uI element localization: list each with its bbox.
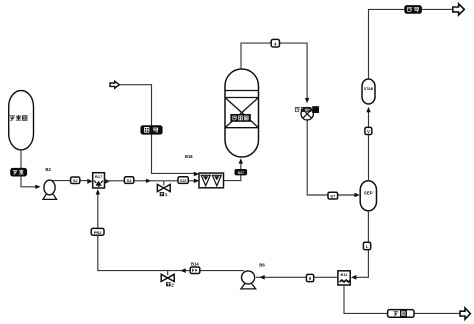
svg-text:B6: B6 [259,263,265,268]
arrowhead into pump B2 [35,185,40,189]
wire SEP top to STAB [368,112,370,181]
stream label 4 [271,39,279,47]
reactor column 反应器 [225,69,259,157]
wire B18 to reactor bottom [224,162,241,181]
wire B11 to pump B6 [256,276,338,278]
wire SEP bottom to splitter B11 [354,211,368,277]
svg-text:S16: S16 [180,179,187,183]
svg-text:B11: B11 [341,272,349,277]
stream label 6 [306,274,313,281]
stream label 尾气 (black) [405,6,422,14]
arrowhead into B17 bottom [96,189,100,194]
svg-text:B2: B2 [45,167,51,172]
wire B11 to product outlet [344,285,460,313]
outlet arrow symbol bottom right [460,308,470,319]
arrowhead into STAB [366,107,370,112]
wire hydrogen feed to B18 [119,85,196,174]
svg-text:S7: S7 [330,194,336,199]
label 进料罐 [10,115,27,120]
block B14 [190,267,200,274]
svg-text:S4: S4 [127,178,133,183]
stream label V [365,127,372,134]
wire STAB top to offgas outlet [369,9,454,79]
arrowhead into SEP [354,193,359,198]
arrowhead into B11 [351,275,356,280]
svg-text:V: V [367,129,370,134]
svg-text:1: 1 [165,192,168,197]
svg-text:PR2: PR2 [94,230,103,235]
valve 阀1 [163,181,165,186]
flash drum SEP [360,181,376,211]
wire pump B2 to mixer B17 [53,180,91,182]
svg-text:S2: S2 [73,178,79,183]
svg-text:B14: B14 [191,262,199,267]
outlet arrowhead of B17 [105,179,110,184]
wire feed tank to pump B2 [21,150,37,187]
arrowhead into pump B6 [259,275,264,280]
arrowhead into B18 lower [194,179,199,184]
arrowhead into valve 阀2 [180,268,185,273]
stream label S2 [71,177,80,184]
valve 阀2 [167,271,169,276]
svg-text:B18: B18 [185,154,193,159]
arrowhead into cooler [305,98,309,103]
stream label PR2 [91,228,104,235]
arrowhead into reactor [239,158,243,163]
svg-text:S17: S17 [238,171,244,175]
stream label S17 (black) [235,170,247,175]
stream label S4 [124,177,133,184]
arrowhead into B17 [87,179,92,184]
stream label L [363,242,370,249]
wire cooler to SEP [307,120,356,195]
outlet arrow symbol top right [453,4,465,15]
block B18 [199,173,224,188]
stream label 氢气 (black) [141,126,162,134]
arrowhead into B18 upper [194,172,199,177]
wire pump B6 recycle to mixer B17 [98,191,244,271]
arrowhead mid-line [146,179,151,183]
stream label 产品 [388,310,414,318]
svg-text:2: 2 [171,282,174,287]
wire B17 to B18 [105,180,197,182]
stream label 进料 (black) [11,168,27,176]
stream label S16 [178,177,188,184]
label 反应器 (black) [231,115,250,122]
cooler 冷凝器 [301,108,313,120]
svg-text:L: L [366,244,369,249]
splitter B11 [338,271,350,285]
inlet arrow symbol 氢气 feed [110,81,119,88]
vessel 进料罐 feed tank [9,91,34,150]
stabilizer STAB [362,79,375,104]
svg-text:B17: B17 [95,174,102,179]
svg-text:STAB: STAB [364,87,374,91]
svg-text:SEP: SEP [364,191,373,196]
stream label S7 [328,192,338,199]
wire reactor top to cooler [241,43,307,98]
mixer B17 [93,173,105,188]
